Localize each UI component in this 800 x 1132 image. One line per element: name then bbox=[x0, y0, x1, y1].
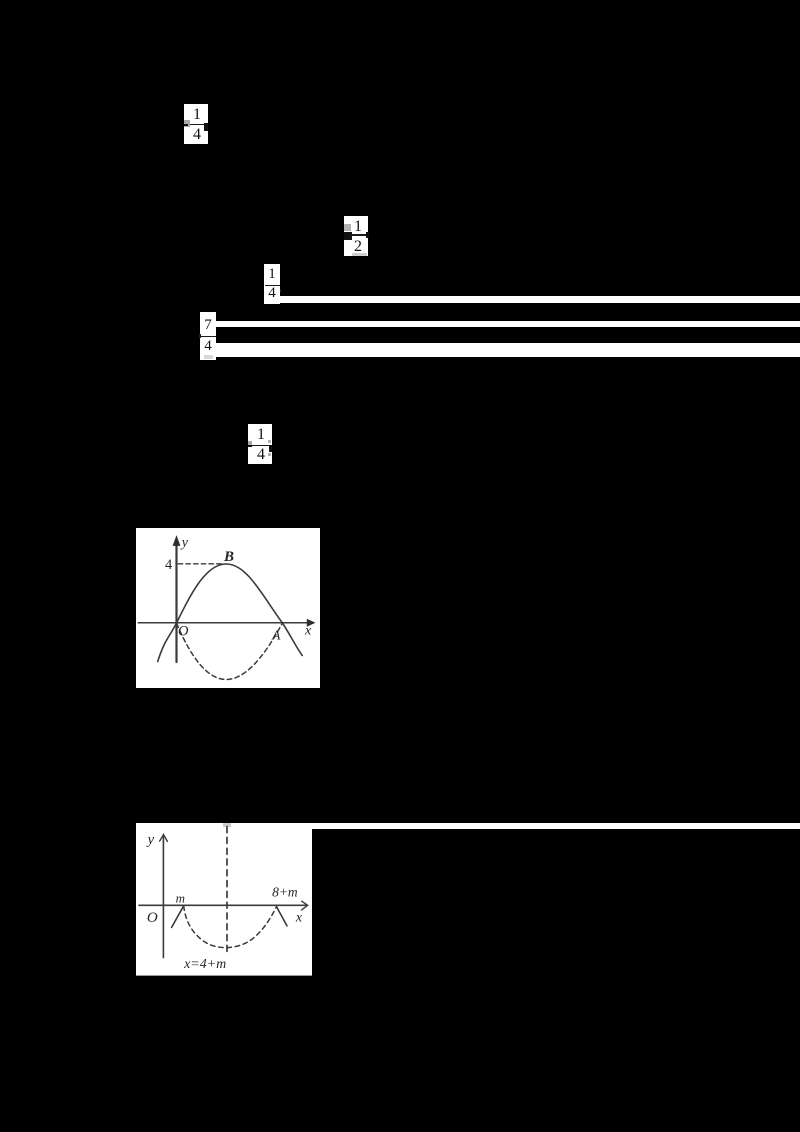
fraction bar of F4 bbox=[201, 336, 216, 337]
fraction bar of F5 bbox=[251, 445, 270, 446]
white underline strip A extending right from F3 bbox=[280, 296, 800, 303]
svg-text:B: B bbox=[223, 549, 234, 565]
fraction digits 1 over 2 of F2 bbox=[348, 215, 368, 217]
gray blotch at bottom of F4 bbox=[204, 355, 213, 359]
gray edge artifact lower-right of F5 bbox=[268, 453, 271, 456]
fraction digits 7 over 4 of F4 bbox=[200, 314, 216, 316]
gray edge artifact left of F1 bbox=[184, 120, 190, 127]
y-axis bbox=[175, 545, 177, 661]
gray strip at bottom of F2 bbox=[352, 253, 367, 256]
svg-text:O: O bbox=[178, 623, 189, 639]
svg-text:x=4+m: x=4+m bbox=[183, 957, 226, 972]
black tick at left edge of F4 bbox=[199, 334, 201, 338]
dashed level-4 line bbox=[178, 562, 224, 564]
x-axis with open arrow bbox=[139, 905, 306, 907]
black text fragment at right edge of F5 bbox=[269, 445, 273, 452]
svg-text:4: 4 bbox=[165, 557, 173, 573]
svg-text:y: y bbox=[179, 535, 188, 550]
left caret bbox=[171, 906, 183, 928]
dashed symmetry axis line x=4+m bbox=[226, 827, 228, 955]
solid parabola bbox=[157, 564, 301, 661]
gray edge artifact upper-right of F5 bbox=[268, 440, 271, 443]
dashed reflected parabola bbox=[176, 622, 282, 678]
svg-text:x: x bbox=[304, 623, 312, 638]
formula image box F4 (fraction 7/4) bbox=[200, 312, 216, 360]
fraction bar of F1 bbox=[190, 124, 204, 125]
svg-text:A: A bbox=[271, 627, 281, 642]
black equals-sign fragment at left edge of F2 bbox=[344, 232, 352, 240]
svg-text:8+m: 8+m bbox=[272, 885, 298, 900]
y-axis with open arrow bbox=[162, 836, 164, 957]
fraction bar of F2 bbox=[350, 234, 366, 235]
fraction bar of F3 bbox=[265, 285, 280, 286]
svg-text:O: O bbox=[147, 910, 158, 926]
svg-text:m: m bbox=[175, 891, 184, 906]
gray edge artifact left of F5 bbox=[248, 441, 252, 448]
fraction digits 1 over 4 of F1 bbox=[186, 103, 208, 105]
graph image panel G2 (upward dashed parabola, axis x=4+m) bbox=[136, 823, 312, 976]
minus-sign dash at left edge of F5 bbox=[248, 445, 253, 448]
gray edge artifact upper-left of F2 bbox=[344, 224, 351, 231]
formula image box F1 (fraction 1/4) bbox=[184, 104, 208, 145]
right caret bbox=[276, 907, 286, 926]
formula image box F5 (fraction 1/4) bbox=[248, 424, 272, 464]
formula image box F3 (fraction 1/4) bbox=[264, 264, 280, 305]
svg-text:x: x bbox=[295, 911, 303, 926]
white underline strip B extending right from F4 bbox=[216, 321, 800, 327]
fraction digits 1 over 4 of F5 bbox=[250, 423, 272, 425]
minus-sign dash at left edge of F1 bbox=[184, 124, 188, 126]
fraction digits 1 over 4 of F3 bbox=[264, 263, 280, 265]
black text fragment at right edge of F2 bbox=[366, 232, 369, 238]
x-axis bbox=[138, 621, 308, 623]
formula image box F2 (fraction 1/2) bbox=[344, 216, 368, 257]
white underline strip C extending right from F4 bbox=[216, 343, 800, 357]
black text fragment at right edge of F1 bbox=[204, 123, 208, 131]
graph image panel G1 (downward parabola y=4 max) bbox=[136, 528, 321, 688]
gray artifact at top of symmetry axis bbox=[223, 823, 231, 827]
dashed parabola bbox=[184, 906, 277, 948]
white underline strip extending right from top edge of G2 bbox=[312, 823, 800, 829]
black tick at right edge of F3 bbox=[280, 289, 282, 292]
svg-text:y: y bbox=[145, 832, 154, 848]
